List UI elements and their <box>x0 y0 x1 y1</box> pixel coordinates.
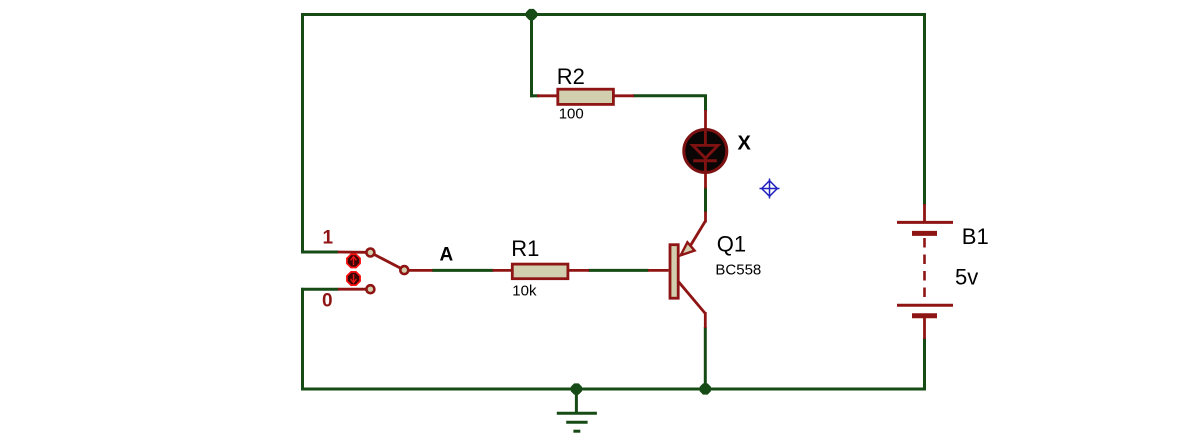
transistor Q1 emitter arrow <box>681 242 695 255</box>
transistor Q1 collector line <box>679 282 706 314</box>
switch pin 0 <box>338 288 366 291</box>
wire right vertical upper <box>923 13 926 205</box>
battery B1 symbol <box>897 222 953 315</box>
wire LED corner vertical <box>704 95 707 112</box>
svg-text:R1: R1 <box>511 236 539 261</box>
svg-text:5v: 5v <box>955 265 978 290</box>
resistor R2 body <box>558 89 614 104</box>
switch lever <box>370 253 404 271</box>
junction top (R2 tap) <box>526 9 537 20</box>
svg-text:1: 1 <box>323 227 334 248</box>
battery B1 bottom pin <box>923 315 926 339</box>
switch button up <box>347 254 360 267</box>
svg-text:R2: R2 <box>557 64 585 89</box>
transistor Q1 emitter pin top <box>704 212 707 223</box>
wire net A left segment <box>432 269 494 272</box>
ground symbol <box>557 389 597 431</box>
LED X body <box>684 130 727 173</box>
svg-text:Q1: Q1 <box>717 231 746 256</box>
battery B1 top pin <box>923 204 926 223</box>
switch terminal common circle <box>400 266 408 274</box>
svg-text:A: A <box>440 244 454 265</box>
switch terminal 1 circle <box>366 249 374 257</box>
svg-text:X: X <box>738 132 752 154</box>
svg-text:10k: 10k <box>512 283 537 300</box>
wire top rail <box>301 13 926 16</box>
junction ground tap <box>571 383 582 394</box>
resistor R2 pins <box>537 94 557 97</box>
wire bottom rail <box>301 388 926 391</box>
switch pin 1 <box>338 251 366 254</box>
wire R2 right to LED corner <box>633 94 707 97</box>
svg-text:BC558: BC558 <box>715 262 761 279</box>
wire LED to transistor emitter <box>704 188 707 213</box>
switch terminal 0 circle <box>366 285 374 293</box>
wire stub into R2 left <box>530 94 539 97</box>
svg-text:B1: B1 <box>962 224 989 249</box>
wire right vertical lower <box>923 338 926 391</box>
transistor Q1 base bar <box>670 245 678 299</box>
wire net A right segment <box>588 269 649 272</box>
resistor R1 pins <box>493 269 513 272</box>
marker crosshair <box>760 179 780 199</box>
wire left vertical lower <box>301 288 304 391</box>
LED X bottom pin <box>704 172 707 189</box>
wire to switch terminal 1 <box>301 251 339 254</box>
switch common stub <box>406 269 433 272</box>
wire left vertical upper <box>301 13 304 253</box>
LED X top pin <box>704 110 707 130</box>
resistor R1 body <box>512 264 568 279</box>
junction collector bottom <box>700 383 711 394</box>
transistor Q1 emitter line <box>691 221 706 246</box>
wire collector to bottom rail <box>704 327 707 391</box>
svg-text:100: 100 <box>559 106 584 123</box>
wire to switch terminal 0 <box>301 288 339 291</box>
svg-text:0: 0 <box>322 291 333 312</box>
transistor Q1 base pin <box>648 269 669 272</box>
transistor Q1 collector pin <box>704 312 707 328</box>
wire from top junction down to R2 <box>530 15 533 98</box>
switch button down <box>347 272 360 285</box>
